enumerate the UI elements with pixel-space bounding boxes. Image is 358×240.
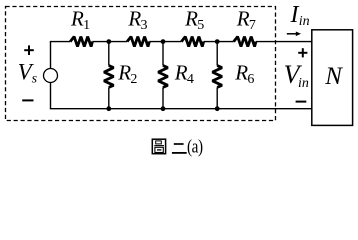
svg-text:R3: R3 bbox=[127, 6, 147, 33]
wire: bottom rail bbox=[50, 108, 312, 110]
wire: R4 bottom to bottom rail bbox=[162, 87, 164, 108]
wire: top rail, source to R1 bbox=[50, 41, 70, 43]
wire: node 2 down to R4 bbox=[162, 42, 164, 66]
svg-text:Iin: Iin bbox=[290, 2, 310, 29]
label minus (input polarity) bbox=[296, 101, 307, 103]
wire: R6 bottom to bottom rail bbox=[216, 87, 218, 108]
svg-text:R6: R6 bbox=[234, 60, 254, 87]
wire: source bottom riser bbox=[50, 83, 52, 109]
svg-text:N: N bbox=[324, 63, 343, 90]
label + (input polarity) bbox=[298, 48, 307, 57]
junction node (R6 bottom) bbox=[215, 106, 220, 111]
voltage source Vs bbox=[44, 69, 58, 83]
resistor R4 bbox=[158, 66, 168, 88]
resistor R5 bbox=[181, 37, 203, 47]
junction node (R2 bottom) bbox=[106, 106, 111, 111]
wire: node 3 down to R6 bbox=[216, 42, 218, 66]
resistor R7 bbox=[234, 37, 256, 47]
resistor R1 bbox=[70, 37, 92, 47]
wire: R5 to R7 bbox=[204, 41, 234, 43]
junction node 3 (top of R6) bbox=[215, 39, 220, 44]
wire: R7 to network box bbox=[256, 41, 312, 43]
current arrow Iin bbox=[287, 32, 301, 37]
label + (source polarity) bbox=[24, 45, 34, 55]
resistor R6 bbox=[212, 66, 222, 88]
wire: R1 to R3 bbox=[92, 41, 127, 43]
svg-text:(a): (a) bbox=[187, 136, 203, 157]
resistor R3 bbox=[127, 37, 149, 47]
caption glyph 二 bbox=[172, 144, 187, 153]
wire: source top riser bbox=[50, 42, 52, 69]
svg-text:R7: R7 bbox=[236, 6, 256, 33]
label minus (source polarity) bbox=[22, 99, 33, 101]
wire: R3 to R5 bbox=[149, 41, 181, 43]
dashed enclosure border bbox=[6, 7, 276, 121]
svg-text:Vs: Vs bbox=[18, 59, 38, 86]
caption (a) bbox=[187, 136, 203, 157]
junction node 1 (top of R2) bbox=[106, 39, 111, 44]
junction node (R4 bottom) bbox=[161, 106, 166, 111]
caption glyph 圖 bbox=[152, 139, 165, 154]
resistor R2 bbox=[104, 66, 114, 88]
svg-text:R5: R5 bbox=[184, 6, 204, 33]
wire: node 1 down to R2 bbox=[108, 42, 110, 66]
two-port network box N bbox=[312, 30, 353, 126]
svg-text:R1: R1 bbox=[70, 6, 90, 33]
svg-text:R4: R4 bbox=[174, 60, 194, 87]
wire: R2 bottom to bottom rail bbox=[108, 87, 110, 108]
svg-text:R2: R2 bbox=[117, 60, 137, 87]
svg-text:Vin: Vin bbox=[284, 60, 309, 91]
junction node 2 (top of R4) bbox=[161, 39, 166, 44]
